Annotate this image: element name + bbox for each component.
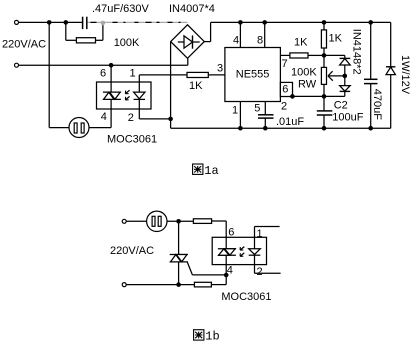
svg-text:1W/12V: 1W/12V — [399, 55, 411, 95]
svg-text:3: 3 — [217, 63, 223, 75]
svg-text:NE555: NE555 — [236, 69, 270, 81]
svg-text:4: 4 — [101, 111, 107, 123]
svg-text:2: 2 — [128, 112, 134, 124]
svg-text:.01uF: .01uF — [276, 116, 304, 128]
svg-text:1: 1 — [232, 105, 238, 117]
svg-text:220V/AC: 220V/AC — [110, 245, 154, 257]
svg-text:2: 2 — [281, 101, 287, 113]
svg-text:6: 6 — [100, 68, 106, 80]
svg-text:5: 5 — [254, 103, 260, 115]
svg-text:RW: RW — [298, 79, 317, 91]
svg-text:8: 8 — [257, 35, 263, 47]
svg-text:MOC3061: MOC3061 — [221, 291, 271, 303]
svg-text:7: 7 — [282, 58, 288, 70]
svg-text:470uF: 470uF — [371, 89, 383, 120]
svg-text:100uF: 100uF — [332, 112, 363, 124]
svg-text:100K: 100K — [291, 67, 317, 79]
svg-text:C2: C2 — [334, 100, 348, 112]
svg-text:4: 4 — [233, 35, 239, 47]
svg-text:1K: 1K — [189, 80, 203, 92]
svg-text:1: 1 — [257, 228, 263, 240]
svg-text:1a: 1a — [204, 164, 218, 178]
svg-text:2: 2 — [257, 266, 263, 278]
svg-text:.47uF/630V: .47uF/630V — [92, 3, 150, 15]
svg-text:IN4148*2: IN4148*2 — [350, 29, 362, 75]
svg-text:1K: 1K — [294, 37, 308, 49]
svg-text:220V/AC: 220V/AC — [2, 39, 46, 51]
svg-text:6: 6 — [228, 227, 234, 239]
svg-text:4: 4 — [227, 265, 233, 277]
svg-text:1b: 1b — [205, 330, 219, 344]
svg-text:IN4007*4: IN4007*4 — [169, 3, 215, 15]
svg-text:100K: 100K — [114, 37, 140, 49]
svg-text:1: 1 — [130, 68, 136, 80]
svg-text:6: 6 — [282, 84, 288, 96]
svg-text:1K: 1K — [329, 33, 343, 45]
svg-text:MOC3061: MOC3061 — [107, 134, 157, 146]
